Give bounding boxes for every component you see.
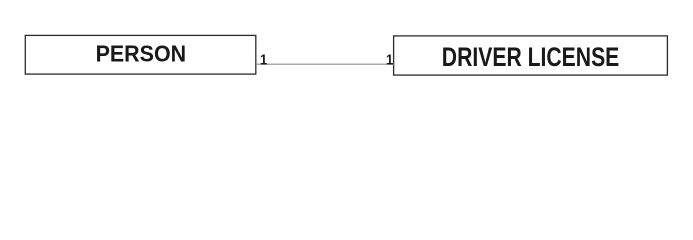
svg-text:DRIVER LICENSE: DRIVER LICENSE — [442, 42, 620, 72]
wire relationship line — [256, 63, 394, 65]
entity box DRIVER LICENSE — [394, 36, 668, 75]
svg-text:1: 1 — [386, 52, 393, 68]
entity box PERSON — [25, 35, 256, 74]
svg-text:1: 1 — [260, 52, 267, 68]
svg-text:PERSON: PERSON — [96, 41, 187, 67]
